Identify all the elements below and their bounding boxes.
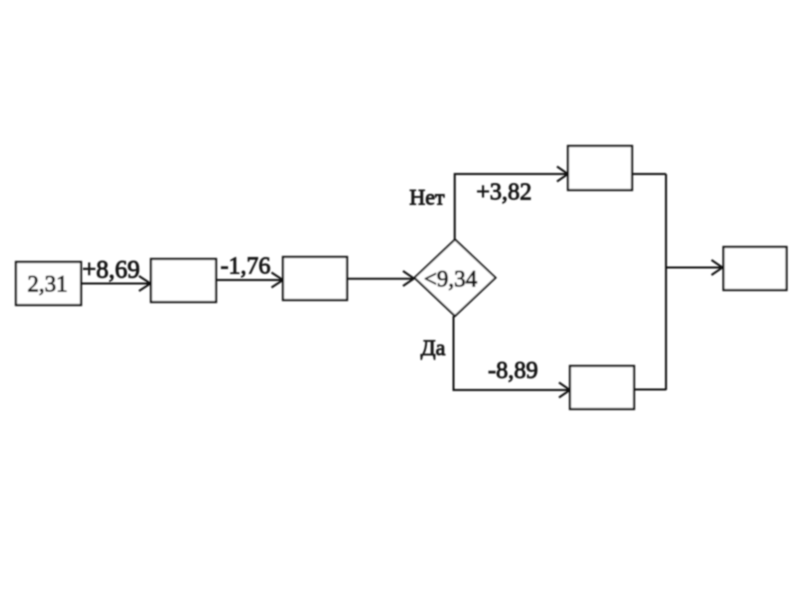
box B4 (top): [568, 146, 632, 190]
svg-text:+3,82: +3,82: [476, 180, 532, 206]
decision diamond D1: [415, 240, 496, 317]
wire right vertical bus: [665, 174, 667, 390]
svg-text:<9,34: <9,34: [424, 267, 478, 292]
box B3: [283, 257, 347, 300]
box B1 (start value): [16, 262, 81, 305]
wire from B5 right to bus: [634, 389, 666, 391]
box B6 (result): [724, 247, 787, 290]
wire branch-Yes: diamond bottom down then right to bottom box: [454, 316, 569, 390]
wire branch-No: diamond top up then right to top box: [455, 174, 566, 240]
arrowhead 6: [712, 260, 723, 275]
wire arrow2 B2 to B3: [216, 279, 282, 281]
wire arrow bus to final box: [666, 267, 721, 269]
svg-text:Да: Да: [421, 335, 446, 360]
svg-text:-8,89: -8,89: [488, 358, 538, 384]
svg-text:2,31: 2,31: [27, 272, 67, 297]
arrowhead 4: [557, 167, 568, 182]
box B2: [151, 259, 216, 302]
svg-text:-1,76: -1,76: [221, 254, 271, 280]
wire from B4 right to bus: [632, 173, 666, 175]
svg-text:Нет: Нет: [409, 185, 445, 210]
arrowhead 3: [403, 271, 414, 286]
wire arrow3 B3 to decision diamond: [347, 278, 412, 280]
wire arrow1 B1 to B2: [81, 283, 149, 285]
svg-text:+8,69: +8,69: [82, 257, 140, 284]
arrowhead 2: [272, 273, 284, 288]
box B5 (bottom): [570, 366, 634, 409]
arrowhead 1: [139, 276, 151, 291]
arrowhead 5: [559, 383, 570, 398]
